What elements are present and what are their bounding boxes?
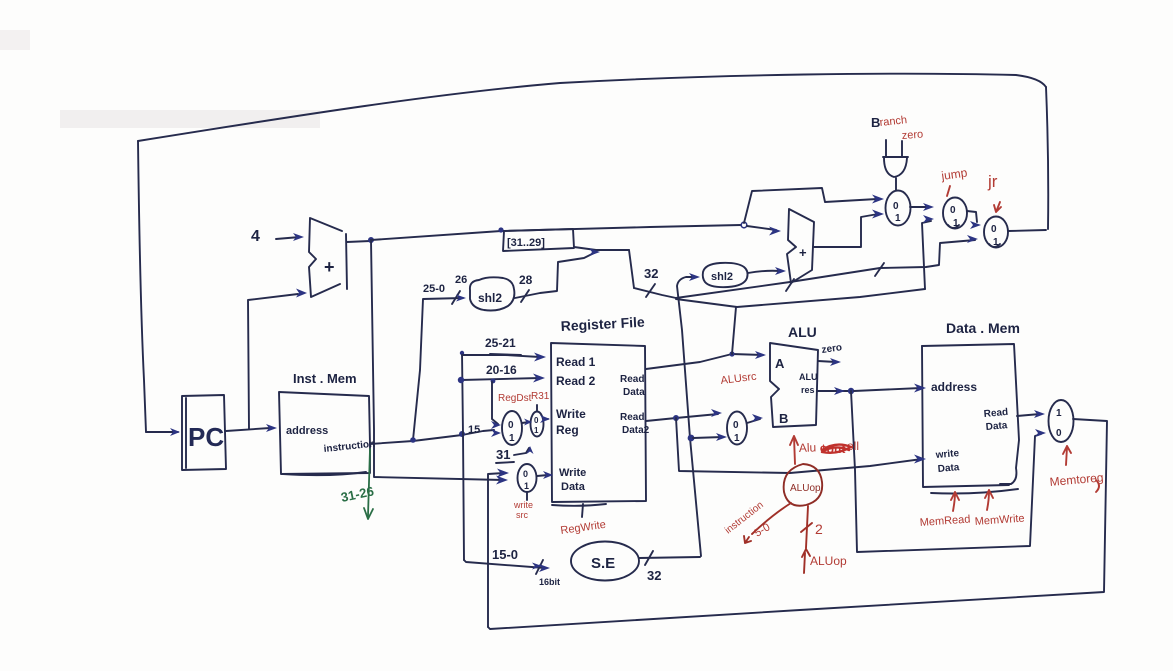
wire Read Data to mux	[1017, 414, 1040, 416]
wire adder output to junction	[347, 241, 370, 242]
label ALUcontroll red	[799, 439, 859, 456]
arrow write reg	[540, 415, 550, 423]
svg-text:S.E: S.E	[591, 555, 615, 572]
svg-text:Read: Read	[620, 374, 644, 385]
wire read data 1 to ALU A	[646, 354, 763, 369]
mark jump tick red	[947, 186, 950, 196]
arrow inst mem address	[266, 424, 277, 432]
sign extend unit S.E	[571, 542, 639, 581]
wire PC+4 feedback riser to adder	[248, 294, 298, 429]
mux write-src	[518, 464, 537, 500]
wire write-src mux to Write Data	[537, 475, 548, 476]
wire shl2 branch output	[748, 271, 780, 273]
mux ALUsrc	[727, 412, 747, 445]
wire ALUcontrol up arrow red	[790, 436, 798, 464]
arrow adder input pc	[296, 289, 307, 298]
svg-text:instruction: instruction	[323, 439, 376, 455]
svg-text:16bit: 16bit	[539, 577, 560, 587]
svg-text:1: 1	[534, 426, 539, 435]
svg-text:Alu: Alu	[799, 440, 817, 455]
wire PC input	[146, 431, 178, 433]
svg-text:Register File: Register File	[560, 314, 645, 334]
svg-text:Write: Write	[556, 407, 586, 421]
wire instr 25-0 riser to shl2	[413, 298, 463, 440]
svg-text:31: 31	[496, 447, 510, 462]
svg-text:RegDst: RegDst	[498, 393, 532, 404]
svg-text:15: 15	[468, 424, 480, 436]
svg-text:A: A	[775, 356, 785, 371]
wire ALU result to Data Mem address	[854, 388, 921, 391]
node instruction tap 1	[410, 437, 416, 443]
arrow SE in 2	[532, 563, 542, 570]
node ALU result	[848, 388, 854, 394]
svg-text:ALU: ALU	[788, 324, 817, 340]
node jr tap	[729, 351, 734, 356]
arrow write data	[543, 471, 553, 479]
wire jr riser	[732, 307, 736, 354]
arrow r31 31	[527, 446, 534, 454]
arrow M2 in b	[923, 215, 934, 223]
arrow r31 in	[524, 419, 532, 426]
wire PC to Inst Mem	[226, 428, 270, 431]
slash 2 on jump line	[786, 279, 794, 291]
label Branch	[871, 114, 908, 130]
arrow read1	[534, 353, 546, 362]
arrow ALU B	[752, 414, 763, 422]
svg-text:Inst . Mem: Inst . Mem	[293, 371, 357, 386]
arrow ALU A	[755, 351, 766, 359]
arrow branch adder top	[769, 227, 781, 236]
svg-text:address: address	[286, 425, 328, 437]
svg-text:+: +	[324, 257, 335, 277]
node ALUsrc immediate tap	[688, 435, 695, 442]
node 20-16 tap	[458, 377, 464, 383]
arrow shl2 jump in	[456, 295, 466, 302]
wire jump rising line	[634, 240, 975, 298]
svg-text:Data: Data	[561, 481, 586, 493]
arrow writesrc a	[497, 469, 509, 478]
wire retrace 25-21	[490, 354, 521, 355]
wire field 25-21 to Read 1	[462, 355, 540, 357]
svg-text:ALUop: ALUop	[790, 483, 821, 494]
svg-text:4: 4	[251, 228, 260, 245]
svg-text:zero: zero	[821, 342, 843, 356]
wire M2 to M3	[967, 211, 977, 222]
slash 16bit	[536, 560, 543, 574]
svg-text:Write: Write	[559, 467, 586, 479]
arrow M3 in a	[970, 221, 981, 229]
wire PC+4 over-the-top to branch mux	[744, 188, 877, 223]
mux jump M2	[943, 198, 967, 230]
arrow branch adder bottom	[775, 267, 786, 275]
green field 31-26 arrow	[364, 449, 373, 519]
svg-text:shl2: shl2	[711, 271, 733, 283]
svg-text:Data: Data	[985, 420, 1008, 433]
arrow ALUsrc 1	[716, 433, 727, 441]
node bus top corner	[460, 351, 464, 355]
svg-text:31-26: 31-26	[340, 483, 376, 505]
arrow regdst b	[491, 429, 501, 437]
shl2 branch unit	[703, 263, 748, 287]
svg-text:1: 1	[509, 433, 515, 444]
mux MemtoReg	[1049, 400, 1074, 442]
svg-text:Data: Data	[937, 462, 960, 475]
svg-text:jr: jr	[987, 172, 998, 191]
wire S.E output	[639, 557, 700, 558]
svg-text:0: 0	[893, 201, 899, 212]
svg-text:1: 1	[953, 218, 959, 229]
wire instruction bus vertical	[462, 352, 464, 560]
svg-text:Reg: Reg	[556, 423, 579, 437]
arrow address	[914, 384, 926, 393]
arrow M3 in b	[967, 235, 978, 243]
wire into branch adder top input	[747, 226, 776, 230]
svg-text:ALUop: ALUop	[810, 554, 847, 568]
box [31..28] field label	[503, 229, 574, 251]
svg-text:0: 0	[991, 224, 997, 235]
svg-text:0: 0	[733, 420, 739, 431]
svg-text:src: src	[516, 510, 528, 520]
svg-text:1: 1	[895, 213, 901, 224]
svg-text:[31..29]: [31..29]	[507, 237, 545, 249]
arrow SE in	[539, 564, 550, 572]
wire M3 output to frame	[1008, 230, 1046, 231]
wire PC+4 down to write-src mux	[371, 240, 503, 480]
wire RegDst mux to R31 mux	[522, 422, 529, 423]
label 32 jump	[644, 266, 658, 297]
svg-text:1: 1	[524, 481, 529, 491]
slash 32 SE	[645, 551, 653, 565]
svg-text:1: 1	[993, 237, 999, 248]
svg-text:res: res	[801, 385, 815, 395]
arrow shl2 branch in	[689, 273, 700, 281]
svg-text:zero: zero	[901, 129, 923, 142]
svg-text:32: 32	[644, 266, 658, 281]
svg-text:MemWrite: MemWrite	[974, 513, 1025, 528]
svg-text:1: 1	[734, 433, 740, 444]
slash 25-0	[452, 291, 460, 304]
svg-text:2: 2	[815, 521, 823, 537]
svg-text:0: 0	[508, 420, 514, 431]
arrow zero	[830, 358, 841, 366]
AND gate branch	[883, 140, 908, 190]
label RegWrite red	[560, 504, 607, 537]
svg-text:Read 1: Read 1	[556, 355, 596, 369]
wire field 20-16 to Read 2	[461, 378, 540, 380]
svg-text:ALU: ALU	[799, 372, 818, 382]
svg-text:PC: PC	[188, 422, 224, 452]
wire [31..28] to jump join	[574, 247, 629, 250]
wire branch adder output to branch mux	[813, 214, 878, 247]
arrow memtoreg 0	[1035, 429, 1046, 437]
arrow mem write data	[914, 455, 926, 464]
wire writeback loop	[488, 419, 1107, 629]
constant 4 label and arrow	[251, 228, 300, 245]
wire R31 mux to Write Reg	[544, 419, 548, 420]
arrow regdst a	[491, 421, 501, 429]
svg-text:address: address	[931, 380, 977, 394]
svg-text:B: B	[779, 411, 788, 426]
wire ALU result out	[817, 390, 848, 392]
label MemtoReg red	[1049, 446, 1104, 492]
mux RegDst	[502, 411, 522, 445]
arrow memtoreg 1	[1034, 410, 1045, 418]
wire jump corner down	[629, 250, 634, 288]
mux jr M3	[984, 217, 1008, 249]
svg-text:Read: Read	[983, 407, 1008, 420]
svg-text:0: 0	[523, 469, 528, 479]
wire shl2 output step up	[515, 252, 596, 298]
svg-text:ALUsrc: ALUsrc	[720, 371, 758, 387]
arrow jump join	[589, 248, 600, 256]
arrow ALU result mid	[834, 387, 845, 395]
svg-text:Read: Read	[620, 412, 644, 423]
svg-text:jump: jump	[939, 165, 968, 183]
svg-text:MemRead: MemRead	[919, 513, 970, 529]
svg-text:20-16: 20-16	[486, 363, 517, 377]
slash on jump line	[875, 263, 884, 276]
wire read data 2 down to Data Mem write data	[676, 418, 922, 473]
svg-text:25-0: 25-0	[423, 283, 445, 295]
svg-text:Data: Data	[623, 387, 645, 398]
node RegDst drop tap	[491, 379, 496, 384]
mux branch M1	[886, 191, 911, 226]
wire PC+4 main to branch adder	[371, 225, 741, 240]
Data Mem box	[922, 320, 1020, 494]
wire jr rising line	[676, 289, 925, 307]
svg-text:R31: R31	[531, 391, 550, 402]
wire zero output	[818, 361, 836, 362]
label 31 with arrow	[496, 447, 529, 463]
Inst Mem box	[279, 371, 376, 475]
wire ALU result bypass loop	[851, 391, 1041, 552]
wire instruction 5-0 red	[744, 503, 791, 543]
PC register	[182, 395, 226, 470]
svg-text:ranch: ranch	[879, 114, 908, 129]
op-amp ALU	[770, 324, 818, 427]
node write data tap	[673, 415, 679, 421]
arrow ALUsrc 0	[711, 409, 722, 417]
register file box	[551, 314, 650, 506]
wire ALUop down red	[801, 506, 812, 573]
svg-text:25-21: 25-21	[485, 336, 516, 350]
svg-text:+: +	[799, 245, 807, 260]
wire M1 to M2	[910, 206, 930, 208]
svg-text:RegWrite: RegWrite	[560, 519, 607, 537]
label write src red	[513, 500, 533, 520]
node PC+4 junction	[368, 237, 374, 243]
mark jr arrow red	[994, 202, 1001, 212]
svg-text:28: 28	[519, 273, 533, 287]
wire writeback riser	[488, 473, 504, 627]
outer frame wire	[138, 74, 1048, 432]
svg-text:32: 32	[647, 568, 661, 583]
node small ring before branch adder	[741, 222, 747, 228]
svg-text:26: 26	[455, 274, 467, 286]
arrow writesrc b	[496, 476, 508, 485]
branch adder	[787, 209, 814, 283]
svg-text:0: 0	[950, 205, 956, 216]
svg-text:0: 0	[534, 416, 539, 425]
svg-text:1: 1	[1056, 408, 1062, 419]
wire RegDst drop to mux	[492, 382, 498, 424]
wire immediate to ALUsrc mux	[693, 437, 723, 438]
control unit ALUcontrol red circle	[784, 464, 823, 506]
svg-text:15-0: 15-0	[492, 547, 518, 562]
label MemRead MemWrite red	[919, 490, 1025, 529]
mux R31	[531, 405, 544, 437]
node instruction tap 2	[459, 431, 465, 437]
svg-text:shl2: shl2	[478, 291, 502, 305]
svg-text:Data . Mem: Data . Mem	[946, 320, 1020, 336]
wire ALUsrc mux to B	[747, 419, 760, 423]
node [31..28] tap	[498, 227, 503, 232]
wire instruction out	[370, 430, 494, 444]
adder PC+4	[309, 218, 347, 297]
arrow M1 in a	[872, 195, 884, 204]
WIRES_AND_PARTS	[138, 74, 1107, 629]
svg-text:Read 2: Read 2	[556, 374, 596, 388]
wire 15-0 to sign extend	[464, 560, 545, 568]
arrow adder input 4	[293, 233, 304, 241]
arrowheads	[170, 195, 1046, 573]
arrow PC input	[170, 428, 180, 436]
wire jump vertical riser to jump mux	[922, 221, 931, 289]
svg-text:Data2: Data2	[622, 425, 650, 436]
svg-text:write: write	[513, 500, 533, 510]
scan shading	[0, 30, 320, 128]
arrow M1 in b	[872, 210, 884, 219]
slash 28	[521, 290, 529, 302]
arrow read2	[533, 374, 545, 383]
wire S.E riser to ALUsrc mux and shl2	[677, 277, 701, 556]
wire read data 2 to ALUsrc mux	[646, 414, 718, 421]
arrow M2 in a	[923, 203, 934, 211]
svg-text:0: 0	[1056, 428, 1062, 439]
shl2 jump unit	[470, 277, 514, 310]
svg-text:write: write	[934, 448, 960, 461]
svg-text:5-0: 5-0	[753, 521, 773, 539]
